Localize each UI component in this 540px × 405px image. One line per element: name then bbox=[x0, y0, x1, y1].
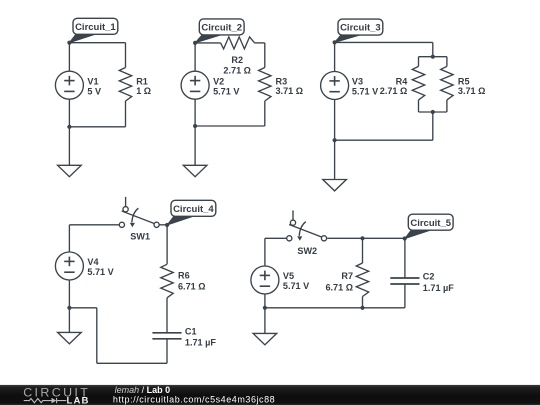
wire bbox=[362, 297, 364, 308]
switch SW2 bbox=[287, 210, 327, 256]
label callout Circuit_3 bbox=[335, 19, 383, 42]
node circuit1 bottom bbox=[67, 125, 71, 129]
svg-text:R3: R3 bbox=[276, 76, 288, 86]
svg-text:5.71 V: 5.71 V bbox=[213, 86, 239, 96]
wire bbox=[446, 100, 448, 112]
label callout Circuit_1 bbox=[69, 18, 117, 42]
logo diode triangle bbox=[52, 398, 57, 404]
node circuit4 top bbox=[165, 223, 169, 227]
wire bbox=[418, 57, 420, 67]
node circuit2 bottom bbox=[193, 124, 197, 128]
svg-text:Circuit_5: Circuit_5 bbox=[410, 218, 451, 229]
wire bbox=[264, 43, 266, 68]
voltage source V2 bbox=[181, 71, 239, 99]
logo resistor-diode symbol bbox=[24, 398, 67, 403]
wire bbox=[404, 238, 406, 278]
wire bbox=[265, 237, 287, 239]
svg-text:Circuit_4: Circuit_4 bbox=[173, 204, 214, 215]
capacitor C1 bbox=[152, 326, 216, 347]
wire bbox=[125, 101, 127, 127]
capacitor C2 bbox=[390, 272, 454, 293]
footer bar bbox=[0, 385, 540, 405]
wire bbox=[264, 101, 266, 126]
wire bbox=[404, 284, 406, 308]
wire bbox=[68, 99, 70, 127]
svg-text:2.71 Ω: 2.71 Ω bbox=[380, 86, 408, 96]
node circuit4 bottom bbox=[67, 306, 71, 310]
svg-text:C1: C1 bbox=[185, 326, 197, 336]
svg-text:R5: R5 bbox=[458, 76, 470, 86]
svg-text:R6: R6 bbox=[178, 270, 190, 280]
wire bbox=[419, 111, 447, 113]
voltage source V4 bbox=[55, 252, 113, 280]
ground circuit 5 bbox=[253, 333, 277, 344]
ground circuit 4 bbox=[58, 332, 82, 343]
wire bbox=[327, 237, 405, 239]
wire bbox=[69, 224, 119, 226]
wire bbox=[432, 112, 434, 140]
resistor R2 bbox=[221, 37, 255, 76]
wire bbox=[195, 42, 221, 44]
svg-text:V4: V4 bbox=[87, 257, 99, 267]
svg-text:1.71 µF: 1.71 µF bbox=[185, 338, 216, 348]
svg-text:Circuit_1: Circuit_1 bbox=[75, 22, 116, 33]
node circuit3 bottom bbox=[333, 138, 337, 142]
svg-text:R4: R4 bbox=[396, 76, 409, 86]
wire bbox=[195, 125, 265, 127]
svg-text:V3: V3 bbox=[352, 77, 363, 87]
svg-text:5 V: 5 V bbox=[87, 86, 101, 96]
wire bbox=[159, 224, 167, 226]
wire bbox=[418, 100, 420, 112]
svg-text:SW2: SW2 bbox=[297, 246, 317, 256]
svg-text:Circuit_3: Circuit_3 bbox=[340, 23, 381, 34]
resistor R4 bbox=[380, 66, 425, 100]
wire bbox=[69, 307, 96, 309]
svg-text:SW1: SW1 bbox=[130, 231, 150, 241]
wire bbox=[335, 139, 433, 141]
svg-text:V5: V5 bbox=[283, 271, 294, 281]
wire bbox=[166, 339, 168, 364]
node circuit2 top bbox=[193, 41, 197, 45]
svg-text:http://circuitlab.com/c5s4e4m3: http://circuitlab.com/c5s4e4m36jc88 bbox=[113, 394, 275, 404]
node circuit5 R7 bottom bbox=[360, 306, 364, 310]
resistor R3 bbox=[259, 68, 303, 102]
wire bbox=[265, 307, 405, 309]
wire bbox=[96, 308, 98, 364]
label callout Circuit_5 bbox=[405, 214, 453, 239]
wire bbox=[68, 225, 70, 252]
wire bbox=[334, 100, 336, 141]
wire bbox=[68, 308, 70, 333]
wire bbox=[166, 225, 168, 264]
resistor R5 bbox=[441, 66, 486, 100]
wire bbox=[335, 41, 433, 43]
wire bbox=[166, 298, 168, 333]
svg-text:V1: V1 bbox=[87, 76, 98, 86]
svg-text:1 Ω: 1 Ω bbox=[136, 86, 151, 96]
wire bbox=[69, 42, 125, 44]
svg-text:V2: V2 bbox=[213, 76, 224, 86]
wire bbox=[69, 126, 125, 128]
ground circuit 1 bbox=[58, 165, 82, 176]
svg-text:LAB: LAB bbox=[67, 395, 90, 405]
svg-text:6.71 Ω: 6.71 Ω bbox=[178, 281, 206, 291]
wire bbox=[194, 126, 196, 165]
node circuit5 R7 top bbox=[360, 236, 364, 240]
wire bbox=[68, 127, 70, 166]
ground circuit 3 bbox=[323, 180, 347, 191]
label callout Circuit_4 bbox=[167, 200, 216, 225]
svg-text:R2: R2 bbox=[231, 55, 243, 65]
wire bbox=[68, 43, 70, 71]
wire bbox=[264, 294, 266, 308]
voltage source V3 bbox=[321, 72, 379, 100]
wire bbox=[255, 42, 265, 44]
wire bbox=[362, 238, 364, 263]
voltage source V1 bbox=[55, 71, 101, 99]
svg-text:Circuit_2: Circuit_2 bbox=[201, 23, 242, 34]
svg-text:R7: R7 bbox=[341, 271, 353, 281]
node circuit5 top-right bbox=[403, 236, 407, 240]
resistor R1 bbox=[119, 68, 151, 102]
resistor R7 bbox=[325, 263, 368, 297]
wire bbox=[68, 280, 70, 308]
svg-text:5.71 V: 5.71 V bbox=[87, 267, 113, 277]
svg-text:C2: C2 bbox=[423, 272, 435, 282]
wire bbox=[432, 42, 434, 56]
label callout Circuit_2 bbox=[195, 19, 244, 43]
wire bbox=[97, 362, 167, 364]
svg-text:1.71 µF: 1.71 µF bbox=[423, 283, 454, 293]
wire bbox=[264, 308, 266, 334]
switch SW1 bbox=[119, 197, 159, 241]
node circuit3 top bbox=[333, 40, 337, 44]
svg-text:5.71 V: 5.71 V bbox=[283, 281, 309, 291]
wire bbox=[419, 56, 447, 58]
wire bbox=[334, 140, 336, 179]
node circuit3 parallel top bbox=[431, 55, 435, 59]
wire bbox=[334, 42, 336, 71]
ground circuit 2 bbox=[183, 165, 207, 176]
svg-text:6.71 Ω: 6.71 Ω bbox=[325, 282, 353, 292]
voltage source V5 bbox=[251, 266, 309, 294]
wire bbox=[194, 43, 196, 71]
node circuit1 top bbox=[67, 41, 71, 45]
wire bbox=[446, 57, 448, 67]
svg-text:3.71 Ω: 3.71 Ω bbox=[458, 86, 486, 96]
wire bbox=[264, 238, 266, 266]
svg-text:3.71 Ω: 3.71 Ω bbox=[276, 86, 304, 96]
svg-text:R1: R1 bbox=[136, 76, 148, 86]
wire bbox=[194, 99, 196, 126]
resistor R6 bbox=[161, 264, 206, 298]
node circuit5 bottom-left bbox=[263, 306, 267, 310]
node circuit3 parallel bottom bbox=[431, 110, 435, 114]
svg-text:5.71 V: 5.71 V bbox=[352, 87, 378, 97]
svg-text:2.71 Ω: 2.71 Ω bbox=[223, 66, 251, 76]
wire bbox=[125, 43, 127, 68]
